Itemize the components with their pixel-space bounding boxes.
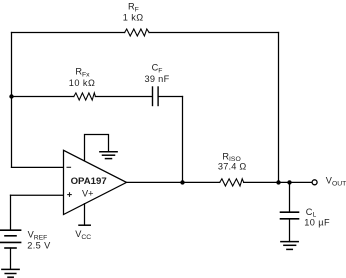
wire op-amp output: [127, 181, 220, 183]
op-amp plus symbol: [67, 192, 72, 197]
terminal VOUT: [312, 180, 317, 185]
svg-text:2.5 V: 2.5 V: [27, 240, 51, 250]
wire CF to corner: [158, 96, 182, 98]
wire VREF to ground: [10, 248, 12, 269]
svg-text:10 kΩ: 10 kΩ: [69, 78, 95, 88]
ground (op-amp V-): [100, 152, 117, 159]
svg-text:1 kΩ: 1 kΩ: [123, 13, 144, 23]
op-amp U1 OPA197: [64, 150, 127, 214]
wire top feedback right: [149, 32, 278, 34]
wire inverting input: [12, 166, 64, 168]
junction node RFx tap: [9, 94, 13, 98]
resistor RF: [125, 29, 150, 36]
junction node CF/output: [180, 180, 184, 184]
svg-text:37.4 Ω: 37.4 Ω: [218, 162, 247, 172]
wire V- pin to ground: [85, 135, 109, 161]
capacitor CF: [153, 87, 159, 106]
wire right feedback vertical: [278, 33, 280, 183]
wire VREF vertical: [10, 195, 12, 230]
svg-text:V+: V+: [82, 188, 94, 198]
wire left vertical: [11, 33, 13, 168]
op-amp minus symbol: [67, 166, 72, 168]
pin VCC: [84, 204, 86, 226]
resistor RFx: [74, 93, 96, 100]
junction node CL tap: [287, 180, 291, 184]
capacitor CL: [289, 182, 291, 212]
svg-text:10 µF: 10 µF: [304, 217, 330, 227]
wire middle left: [12, 96, 74, 98]
battery VREF: [1, 230, 21, 248]
resistor RISO: [220, 179, 244, 186]
wire plus input: [11, 194, 64, 196]
svg-text:39 nF: 39 nF: [145, 74, 170, 84]
svg-text:OPA197: OPA197: [71, 176, 107, 187]
wire RFx to CF: [95, 96, 152, 98]
wire RISO to output node: [244, 181, 312, 183]
ground (CL): [281, 242, 298, 250]
junction node RF feedback: [276, 180, 280, 184]
ground (VREF): [2, 269, 19, 277]
wire top feedback left: [12, 32, 125, 34]
wire CF branch vertical: [182, 97, 184, 183]
